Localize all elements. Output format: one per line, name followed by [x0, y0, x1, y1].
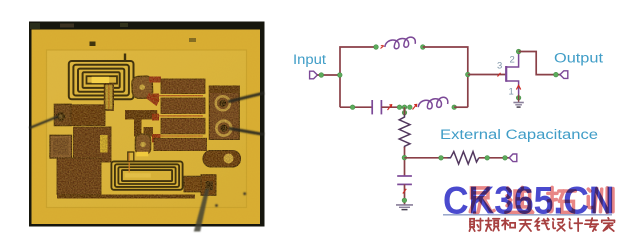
trace from spiral centre (die): [105, 84, 114, 110]
red pin mark C1: [388, 105, 392, 110]
node at input: [319, 73, 324, 78]
wire drain to output: [519, 52, 560, 75]
wire gate: [468, 74, 506, 76]
bond pad with bond wire (die, left): [54, 104, 71, 126]
large metal block (die): [57, 127, 111, 195]
node output: [554, 72, 559, 77]
port P2 Output: [560, 71, 568, 79]
connector bar (die): [125, 110, 157, 119]
drain pad with via bumps (die): [209, 86, 239, 140]
photo grain overlay: [32, 30, 261, 225]
svg-text:Output: Output: [554, 50, 603, 65]
via pad (die, center): [135, 134, 150, 154]
output pad (die): [203, 151, 241, 168]
wire L2 to right rail: [454, 106, 468, 108]
red pin mark L2: [413, 104, 417, 109]
red slogan line: [469, 218, 614, 231]
wire C2 to ground: [404, 184, 406, 204]
node R2 right: [485, 156, 490, 161]
gate via pad (die, top octagon): [132, 76, 153, 98]
node R2 left: [439, 156, 444, 161]
watermark red characters: [470, 187, 613, 213]
node before C1: [350, 105, 355, 110]
watermark underline: [443, 214, 612, 216]
node tee: [402, 155, 407, 160]
node L2 right: [452, 105, 457, 110]
transistor Q1 (FET): [506, 52, 521, 95]
gate metal (die, red): [147, 77, 162, 143]
wire left rail to C1: [340, 106, 372, 108]
ground G1 (source): [513, 95, 523, 108]
bond wires (die photo): [30, 93, 265, 232]
resistor R2 (horizontal): [448, 152, 479, 164]
bottom trace (die): [57, 195, 195, 199]
capacitor C2 (shunt): [397, 176, 412, 184]
die micrograph photo: [29, 22, 265, 227]
capacitor C1 (series): [372, 100, 381, 114]
red pin mark gate: [498, 73, 501, 77]
wire input port to left rail: [317, 74, 340, 76]
pad with bond (die, bottom): [184, 175, 216, 196]
left rail wire: [340, 47, 376, 107]
resistor R1 (vertical): [399, 115, 410, 149]
node cluster at C1/L2/R1 junction: [397, 105, 412, 115]
red pin mark L1: [381, 45, 385, 48]
spiral inductor (die, top-left): [69, 54, 134, 100]
svg-text:External Capacitance: External Capacitance: [440, 127, 598, 142]
node ground: [402, 198, 407, 203]
inductor L1: [385, 37, 416, 49]
wire tee to R2: [404, 157, 450, 159]
wire R2 to port: [479, 157, 510, 159]
node source: [516, 96, 521, 101]
node ext port: [503, 156, 508, 161]
node drain: [516, 49, 521, 54]
node L1 left: [374, 45, 379, 50]
red pin mark C2: [403, 189, 407, 194]
node L1 right: [421, 45, 426, 50]
svg-text:Input: Input: [293, 52, 326, 67]
inductor L2: [418, 97, 448, 109]
node gate junction on right rail: [466, 72, 471, 77]
node input junction: [338, 73, 343, 78]
wire L1 to right rail: [423, 47, 468, 107]
spiral inductor (die, bottom): [111, 152, 182, 190]
ground G2: [396, 205, 413, 210]
wire C1 to node cluster: [381, 106, 399, 108]
port P1 Input: [310, 71, 318, 79]
svg-text:3: 3: [497, 61, 502, 72]
MIM capacitor pad (die): [50, 135, 72, 158]
svg-text:1: 1: [509, 87, 514, 98]
transistor fingers (die): [154, 79, 207, 151]
wire node to R1: [404, 107, 406, 115]
port P3 External: [509, 154, 517, 162]
metal block (die, row): [71, 105, 105, 126]
watermark CK365.CN: [443, 180, 615, 232]
svg-text:2: 2: [510, 55, 515, 66]
wire R1 to tee: [404, 147, 406, 176]
